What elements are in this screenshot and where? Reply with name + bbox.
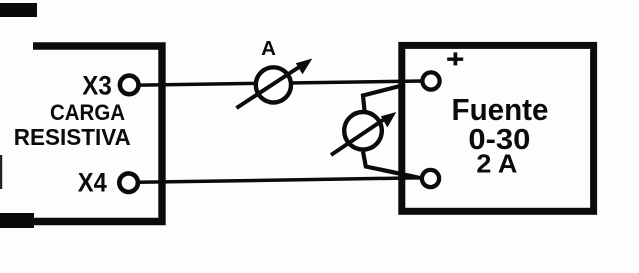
svg-text:2 A: 2 A xyxy=(476,148,517,178)
svg-text:A: A xyxy=(261,37,276,60)
svg-text:Fuente: Fuente xyxy=(452,92,549,127)
svg-text:X4: X4 xyxy=(78,168,107,198)
svg-text:X3: X3 xyxy=(82,71,112,101)
svg-text:RESISTIVA: RESISTIVA xyxy=(14,124,131,150)
svg-text:CARGA: CARGA xyxy=(50,100,125,125)
